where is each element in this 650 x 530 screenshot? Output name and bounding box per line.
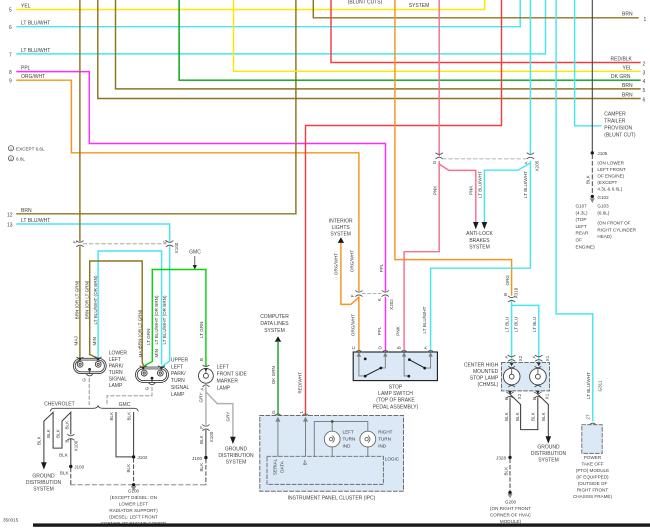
- svg-text:X100: X100: [174, 242, 179, 253]
- label BLK chmsl 4: [541, 411, 546, 421]
- svg-text:RED/WHT: RED/WHT: [298, 372, 303, 394]
- label STOP LAMP SWITCH (TOP OF BRAKE PEDAL ASSEMBLY): [373, 384, 419, 410]
- svg-text:BRN: BRN: [622, 93, 633, 99]
- splice J328: [496, 456, 512, 461]
- label LT GRN marker lamp: [199, 322, 204, 338]
- svg-text:(ON FRONT OF: (ON FRONT OF: [597, 221, 630, 226]
- wire 5 YEL horizontal row: [17, 0, 485, 10]
- label K pin X202: [377, 297, 394, 310]
- svg-text:PNK: PNK: [433, 185, 438, 195]
- svg-text:(IF EQUIPPED): (IF EQUIPPED): [576, 475, 609, 480]
- label LT BLU right: [532, 317, 537, 332]
- label LT BLU middle: [513, 317, 518, 332]
- label INSTRUMENT PANEL CLUSTER (IPC): [288, 496, 376, 502]
- svg-text:ORG/WHT: ORG/WHT: [334, 253, 339, 275]
- wire BLK dashed lower lamp G to chevrolet/gmc brace: [88, 379, 90, 405]
- svg-text:(OUTSIDE OF: (OUTSIDE OF: [578, 481, 608, 486]
- svg-text:LT BLU/WHT: LT BLU/WHT: [523, 171, 528, 198]
- splice J105: [591, 151, 608, 156]
- svg-text:LAMP: LAMP: [109, 383, 123, 389]
- label BLK below X100 B: [59, 452, 69, 457]
- svg-text:LT BLU/WHT: LT BLU/WHT: [21, 48, 50, 54]
- label GRY branch: [225, 412, 230, 422]
- wire BRN row 5 right: [116, 0, 641, 89]
- svg-text:BLK: BLK: [126, 411, 131, 421]
- wire BLK CHMSL left lamp to splice J328: [509, 398, 511, 456]
- stop lamp switch terminal A: [428, 350, 434, 352]
- label GROUND DISTRIBUTION SYSTEM (chmsl): [531, 445, 567, 464]
- svg-text:MIN: MIN: [92, 337, 97, 345]
- svg-text:CHASSIS FRAME): CHASSIS FRAME): [573, 494, 613, 499]
- svg-text:PPL: PPL: [379, 263, 384, 272]
- svg-text:1: 1: [644, 17, 647, 23]
- svg-text:GROUND: GROUND: [537, 445, 560, 451]
- svg-text:BRN (OR LT GRN): BRN (OR LT GRN): [84, 280, 89, 319]
- svg-text:MARKER: MARKER: [217, 378, 239, 384]
- svg-text:J100: J100: [192, 456, 202, 461]
- svg-text:LT BLU: LT BLU: [532, 317, 537, 332]
- svg-text:BLK: BLK: [59, 452, 69, 457]
- svg-text:RIGHT: RIGHT: [378, 430, 392, 435]
- label X2 top: [518, 355, 523, 361]
- svg-text:COMPUTER: COMPUTER: [260, 314, 289, 320]
- PTO terminal: [590, 423, 596, 425]
- instrument panel cluster box: [260, 416, 404, 492]
- power take off module box: [582, 425, 602, 454]
- svg-text:LT BLU/WHT: LT BLU/WHT: [21, 21, 50, 27]
- svg-text:27: 27: [586, 414, 591, 420]
- node 7 label: [9, 48, 50, 59]
- svg-text:MOUNTED: MOUNTED: [473, 369, 499, 375]
- label MIN upper lamp: [154, 349, 159, 357]
- label A pin CHMSL right: [531, 355, 536, 359]
- label A pin X205: [524, 160, 540, 171]
- arrow anti-lock left: [473, 222, 479, 229]
- IPC B+ wire with arrow: [303, 417, 308, 457]
- svg-text:IND: IND: [343, 444, 352, 449]
- svg-text:SYSTEM: SYSTEM: [409, 3, 430, 9]
- wire 6 LT BLU/WHT row: [17, 0, 520, 27]
- wire DK GRN row 4 right: [179, 0, 640, 80]
- svg-text:MIN: MIN: [154, 349, 159, 357]
- connector X202 K symbol on PPL wire: [382, 291, 389, 297]
- lamp lower left park/turn signal: [73, 357, 106, 376]
- svg-text:13: 13: [7, 223, 13, 229]
- svg-text:(EXCEPT: (EXCEPT: [597, 180, 617, 185]
- label BLK below J100: [199, 462, 204, 472]
- label ORG/WHT interior branch: [334, 253, 339, 275]
- label BLK chmsl 3: [531, 411, 536, 421]
- svg-text:BRN: BRN: [21, 208, 32, 214]
- label 27 pin PTO: [586, 414, 591, 420]
- svg-text:ORG/WHT: ORG/WHT: [350, 314, 355, 336]
- svg-text:RIGHT FRONT: RIGHT FRONT: [577, 488, 608, 493]
- svg-text:MAJ: MAJ: [73, 336, 78, 345]
- splice J100 right: [192, 456, 208, 461]
- svg-text:YEL: YEL: [21, 4, 31, 10]
- svg-text:LT BLU/WHT: LT BLU/WHT: [422, 306, 427, 333]
- label BLK: [586, 174, 591, 184]
- label G pin X205: [432, 160, 437, 164]
- arrow anti-lock right: [482, 222, 488, 229]
- wire 9 ORG/WHT to stop lamp switch C: [17, 80, 359, 350]
- svg-text:SERIAL: SERIAL: [272, 458, 277, 475]
- svg-text:J100: J100: [74, 465, 84, 470]
- label LOGIC: [385, 457, 400, 462]
- svg-text:LT BLU/WHT: LT BLU/WHT: [586, 372, 591, 399]
- svg-text:(ON LOWER: (ON LOWER: [597, 161, 624, 166]
- label PNK on main: [433, 185, 438, 195]
- label G103 alternative ground: [597, 204, 636, 240]
- svg-text:PNK: PNK: [396, 325, 401, 335]
- svg-text:DATA: DATA: [279, 460, 284, 473]
- svg-text:SYSTEM: SYSTEM: [226, 460, 247, 466]
- wire BLK dashed J328 to G200: [509, 459, 511, 491]
- svg-text:F: F: [199, 426, 204, 429]
- label LT BLU/WHT (OR BRN) upper MIN b: [162, 295, 167, 344]
- svg-text:8: 8: [9, 70, 12, 76]
- connector X205 G symbol: [436, 153, 443, 159]
- svg-text:(BLUNT CUT): (BLUNT CUT): [604, 133, 636, 139]
- svg-text:PEDAL ASSEMBLY): PEDAL ASSEMBLY): [373, 404, 419, 410]
- node 5 label: [9, 4, 31, 14]
- label GMC brace: [119, 402, 131, 408]
- svg-text:X100: X100: [209, 431, 214, 442]
- svg-text:INSTRUMENT PANEL CLUSTER (IPC): INSTRUMENT PANEL CLUSTER (IPC): [288, 496, 376, 502]
- svg-text:BLK: BLK: [541, 411, 546, 421]
- svg-text:LT BLU: LT BLU: [505, 317, 510, 332]
- svg-text:(TOP OF BRAKE: (TOP OF BRAKE: [376, 398, 415, 404]
- svg-text:LEFT FRONT: LEFT FRONT: [597, 167, 625, 172]
- label RED/WHT: [298, 372, 303, 394]
- wire 8 PPL to stop lamp switch D: [17, 72, 386, 350]
- label BLK below J100 left: [60, 471, 70, 476]
- label X1 bottom: [544, 393, 549, 399]
- label LT GRN upper lamp: [146, 329, 151, 345]
- svg-text:BLK: BLK: [60, 471, 70, 476]
- label SERIAL DATA: [272, 458, 284, 475]
- svg-text:FRONT SIDE: FRONT SIDE: [217, 371, 248, 377]
- svg-text:YEL: YEL: [623, 65, 633, 71]
- label INTERIOR LIGHTS SYSTEM: [329, 218, 353, 237]
- svg-text:PPL: PPL: [21, 66, 31, 72]
- IPC logic box: [267, 456, 383, 484]
- svg-text:TURN: TURN: [109, 370, 123, 376]
- connector X205 A symbol: [527, 153, 534, 159]
- svg-text:G: G: [81, 378, 86, 382]
- svg-text:OF: OF: [576, 238, 583, 243]
- lamp CHMSL left bulb: [503, 367, 520, 387]
- svg-text:LT GRN: LT GRN: [146, 329, 151, 345]
- wire BLK X100 F to splice J100: [205, 430, 207, 456]
- svg-text:ORG/WHT: ORG/WHT: [21, 74, 45, 80]
- wire BLK dashed J102 to G100: [133, 459, 135, 483]
- ground G100 dashed bus: [71, 484, 206, 486]
- svg-text:OF ENGINE): OF ENGINE): [597, 174, 624, 179]
- label GMC with arrow to LT GRN wire: [189, 250, 201, 270]
- label E pin X100: [73, 240, 78, 243]
- wire LT BLU/WHT from X205 down to stop lamp switch A: [431, 0, 531, 350]
- label COMPUTER DATA LINES SYSTEM: [260, 314, 289, 334]
- wire LT BLU to CHMSL left lamp A: [511, 302, 513, 363]
- svg-text:BRN: BRN: [622, 83, 633, 89]
- svg-text:LT GRN: LT GRN: [199, 322, 204, 338]
- IPC serial data wire with arrow: [275, 417, 280, 457]
- svg-text:BLK: BLK: [199, 462, 204, 472]
- label LT BLU/WHT main: [523, 171, 528, 198]
- svg-text:DATA LINES: DATA LINES: [260, 321, 289, 327]
- label D PPL stop switch: [377, 326, 383, 349]
- label LEFT FRONT SIDE MARKER LAMP: [217, 364, 248, 391]
- label BLK meander 2: [46, 428, 51, 438]
- svg-text:J105: J105: [597, 151, 607, 156]
- svg-text:STOP LAMP: STOP LAMP: [470, 375, 499, 381]
- svg-text:TRAILER: TRAILER: [604, 119, 626, 125]
- wire BLK CHMSL right lamp down: [537, 398, 539, 430]
- label G107 alternative ground: [576, 204, 596, 250]
- svg-text:TAKE OFF: TAKE OFF: [581, 462, 603, 467]
- svg-text:G107: G107: [576, 204, 588, 209]
- label CHEVROLET: [44, 402, 75, 408]
- label GRY main: [198, 393, 203, 403]
- svg-text:PARK/: PARK/: [109, 364, 124, 370]
- svg-text:4: 4: [643, 79, 646, 85]
- svg-text:6.6L: 6.6L: [16, 156, 25, 161]
- svg-text:DK GRN: DK GRN: [611, 74, 631, 80]
- connector X205 dashed line: [443, 158, 527, 160]
- label LEFT TURN IND: [343, 430, 356, 449]
- wire 12 BRN row: [17, 0, 296, 214]
- svg-text:INTERIOR: INTERIOR: [329, 218, 353, 224]
- CHMSL terminal wedges: [508, 363, 541, 394]
- label BLK above J100: [199, 434, 204, 444]
- label 350315: [3, 518, 19, 523]
- svg-text:(EXCEPT DIESEL: ON: (EXCEPT DIESEL: ON: [110, 495, 157, 500]
- ground G100 symbol: [131, 483, 136, 491]
- wire ORG from top to X318 connector: [395, 0, 512, 295]
- label GROUND DISTRIBUTION SYSTEM (chevrolet): [26, 474, 62, 493]
- svg-text:DK GRN: DK GRN: [271, 366, 276, 384]
- wire LT BLU branch to CHMSL right lamp A: [512, 305, 539, 363]
- svg-text:DISTRIBUTION: DISTRIBUTION: [26, 480, 62, 486]
- svg-text:BRN (OR LT GRN): BRN (OR LT GRN): [74, 280, 79, 319]
- stop lamp switch terminal B: [401, 350, 407, 352]
- svg-text:X202: X202: [389, 299, 394, 310]
- svg-text:MAJ: MAJ: [138, 348, 143, 357]
- svg-text:BLK: BLK: [46, 428, 51, 438]
- center high mounted stop lamp box: [502, 363, 550, 391]
- label X2 bottom: [517, 393, 522, 399]
- node 12 label: [7, 208, 32, 219]
- svg-text:BLK: BLK: [586, 174, 591, 184]
- svg-text:6: 6: [9, 25, 12, 31]
- label BLK meander 1: [36, 435, 41, 445]
- svg-text:B+: B+: [302, 459, 307, 465]
- svg-text:X1: X1: [545, 355, 550, 361]
- svg-text:B: B: [503, 293, 508, 296]
- label UPPER LEFT PARK/TURN SIGNAL LAMP: [171, 357, 190, 398]
- label B pin X100 chevrolet: [64, 440, 78, 452]
- svg-text:G: G: [271, 410, 276, 414]
- svg-text:LOWER LEFT: LOWER LEFT: [119, 502, 149, 507]
- svg-text:GMC: GMC: [189, 250, 201, 256]
- svg-text:BLK: BLK: [503, 466, 508, 476]
- label BLK meander 4: [64, 420, 69, 430]
- label G pin X100: [163, 239, 180, 253]
- label BLK gmc left: [109, 411, 114, 421]
- svg-text:GROUND: GROUND: [32, 474, 55, 480]
- wire BLK CHMSL right lamp diagonal to ground arrow: [538, 394, 549, 437]
- svg-text:LEFT: LEFT: [109, 357, 121, 363]
- svg-text:REAR: REAR: [576, 231, 589, 236]
- stop lamp switch internal contacts: [357, 352, 433, 376]
- connector X2 symbol bottom: [507, 392, 514, 398]
- svg-text:G100: G100: [128, 489, 140, 494]
- wire BLK dashed J105 to G102: [591, 155, 593, 195]
- arrow ground distribution (CHMSL): [546, 436, 552, 443]
- node BRN 5 right label: [622, 83, 646, 94]
- stop lamp switch box: [353, 352, 437, 381]
- IPC terminal G: [271, 410, 281, 416]
- wire 13 LT BLU/WHT to upper lamp MIN: [17, 224, 170, 366]
- connector X1 symbol top: [536, 355, 543, 361]
- svg-text:RED/BLK: RED/BLK: [611, 57, 633, 63]
- stop lamp switch terminal D: [382, 350, 388, 352]
- label BRN (OR LT GRN) jumper left: [84, 280, 89, 319]
- svg-text:BLK: BLK: [199, 434, 204, 444]
- svg-text:TURN: TURN: [378, 437, 391, 442]
- svg-text:ORG/WHT: ORG/WHT: [350, 250, 355, 272]
- label MAJ lower lamp: [73, 336, 78, 345]
- node BRN 1 right label: [622, 11, 647, 22]
- svg-text:EXCEPT 6.6L: EXCEPT 6.6L: [16, 146, 45, 151]
- bottom border bar: [33, 523, 650, 526]
- svg-text:4.3L & 6.6L): 4.3L & 6.6L): [597, 187, 622, 192]
- svg-text:BLK: BLK: [531, 411, 536, 421]
- svg-text:G: G: [163, 239, 168, 243]
- svg-text:GRY: GRY: [198, 393, 203, 403]
- connector X202 F symbol on ORG/WHT wire: [356, 291, 363, 297]
- svg-text:LAMP SWITCH: LAMP SWITCH: [378, 391, 413, 397]
- svg-text:X2: X2: [517, 393, 522, 399]
- svg-text:5: 5: [643, 88, 646, 94]
- IPC indicator bus wire: [314, 422, 368, 457]
- brace chevrolet gmc: [50, 405, 138, 411]
- wire LT BLU/WHT camper trailer provision blunt cut: [575, 0, 601, 126]
- lamp left front side marker: [199, 365, 214, 386]
- svg-text:GROUND: GROUND: [225, 447, 248, 453]
- wire LT BLU/WHT jumper upper MIN to lower MIN: [98, 251, 162, 364]
- svg-text:POWER: POWER: [584, 455, 602, 460]
- label G pin lower lamp: [81, 378, 86, 382]
- wire BLK dashed upper lamp G to brace: [107, 387, 152, 404]
- label LT BLU/WHT (OR BRN) upper MIN a: [154, 295, 159, 344]
- note 1 EXCEPT 6.6L: [8, 146, 45, 152]
- svg-text:7: 7: [9, 53, 12, 59]
- svg-text:LT BLU/WHT: LT BLU/WHT: [477, 171, 482, 198]
- lamp CHMSL right bulb: [530, 367, 547, 387]
- stop lamp switch terminal C: [356, 350, 362, 352]
- wire BRN jumper lower MIN to upper MAJ: [90, 261, 144, 366]
- ground G200: [507, 491, 512, 498]
- wire BLK from top to splice J105: [591, 0, 593, 152]
- svg-text:SYSTEM: SYSTEM: [330, 232, 351, 238]
- svg-text:B: B: [64, 440, 69, 443]
- svg-text:E: E: [73, 240, 78, 243]
- label LT BLU/WHT (OR BRN) lower MIN: [93, 275, 98, 324]
- note 2 6.6L: [8, 156, 25, 162]
- svg-text:BLK: BLK: [109, 411, 114, 421]
- node DK GRN 4 right label: [611, 74, 646, 85]
- svg-text:(PTO) MODULE: (PTO) MODULE: [576, 468, 609, 473]
- connector X100 B symbol on BLK wire: [68, 434, 75, 440]
- label BLK meander 3: [56, 428, 61, 438]
- label G pin upper lamp: [144, 386, 149, 390]
- svg-text:BLK: BLK: [56, 428, 61, 438]
- label B PNK stop switch: [396, 325, 402, 349]
- junction dot on bus: [331, 420, 334, 423]
- wire BLK dashed J100 left to G100 line: [70, 468, 72, 485]
- svg-text:LEFT: LEFT: [171, 364, 183, 370]
- svg-text:SYSTEM: SYSTEM: [538, 458, 559, 464]
- svg-text:F: F: [350, 294, 355, 297]
- svg-text:SYSTEM: SYSTEM: [469, 245, 490, 251]
- wire ORG/WHT branch to interior lights system: [341, 244, 359, 305]
- svg-text:GRY: GRY: [225, 412, 230, 422]
- svg-text:ANTI-LOCK: ANTI-LOCK: [466, 231, 493, 237]
- svg-text:(BLUNT CUTS): (BLUNT CUTS): [348, 0, 383, 6]
- wire PNK branch to anti-lock brakes arrow: [439, 164, 476, 223]
- svg-text:TURN: TURN: [171, 378, 185, 384]
- connector X100 G symbol on LT BLU/WHT wire: [166, 241, 173, 247]
- svg-text:PNK: PNK: [469, 185, 474, 195]
- label LT BLU left: [505, 317, 510, 332]
- label B pin marker lamp: [199, 358, 204, 361]
- svg-text:MODULE): MODULE): [500, 519, 522, 524]
- svg-text:(4.3L): (4.3L): [576, 210, 588, 215]
- connector X1 symbol bottom: [535, 392, 542, 398]
- svg-text:RIGHT CYLINDER: RIGHT CYLINDER: [597, 227, 636, 232]
- svg-text:BLK: BLK: [36, 435, 41, 445]
- label PNK on branch: [469, 185, 474, 195]
- label ORG/WHT main above X202: [350, 250, 355, 272]
- label G100 location: [101, 489, 167, 527]
- label C ORG/WHT stop switch: [350, 314, 356, 350]
- svg-text:SYSTEM: SYSTEM: [264, 328, 285, 334]
- node 13 label: [7, 218, 50, 229]
- svg-text:B: B: [199, 358, 204, 361]
- splice J100 left: [69, 465, 85, 470]
- svg-text:350315: 350315: [3, 518, 19, 523]
- svg-text:LOGIC: LOGIC: [385, 457, 400, 462]
- svg-text:HEAD): HEAD): [597, 234, 612, 239]
- label X1 top: [545, 355, 550, 361]
- label GROUND DISTRIBUTION SYSTEM (marker): [218, 447, 254, 466]
- svg-text:LT BLU/WHT (OR BRN): LT BLU/WHT (OR BRN): [162, 295, 167, 344]
- svg-text:G102: G102: [597, 195, 609, 200]
- wire BRN row 6 right: [98, 0, 640, 99]
- wire BLK chevrolet meander to ground arrow and X100 B: [44, 412, 71, 465]
- node RED/BLK 2 right label: [611, 57, 646, 68]
- node BRN 6 right label: [622, 93, 646, 104]
- wire 7 LT BLU/WHT row: [17, 0, 546, 54]
- svg-text:6: 6: [643, 98, 646, 104]
- label MAJ upper lamp: [138, 348, 143, 357]
- label A pin marker lamp: [199, 387, 204, 391]
- label POWER TAKE OFF (PTO) MODULE: [573, 455, 613, 499]
- label DK GRN: [271, 366, 276, 384]
- svg-text:9: 9: [9, 79, 12, 85]
